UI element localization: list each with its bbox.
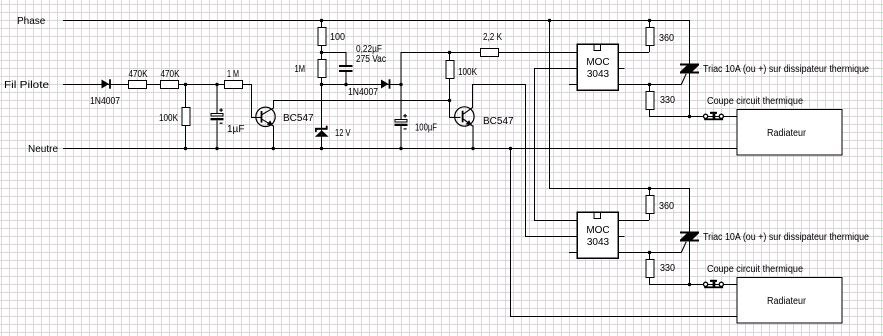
diode D2 1N4007 [381, 80, 389, 89]
wire R7 down to Q2 base [450, 53, 461, 118]
node junction triac/load line [688, 283, 691, 286]
node junction triac/load line [688, 115, 691, 118]
wire triac T1 vertical [689, 20, 691, 116]
capacitor C1 1uF [211, 108, 224, 123]
svg-text:1N4007: 1N4007 [348, 87, 378, 98]
node junction Q2 emitter/Neutre [471, 147, 474, 150]
svg-text:100K: 100K [458, 67, 477, 78]
wire U2 pin 3 stub [569, 252, 577, 254]
triac T2 [680, 232, 699, 242]
triac T1 [680, 64, 699, 74]
diode D1 1N4007 [102, 80, 110, 89]
svg-text:2,2 K: 2,2 K [483, 32, 502, 43]
node junction R5/C2/R6 [320, 51, 323, 54]
node junction C3/Neutre [399, 147, 402, 150]
node junction Neutre/return loop [509, 147, 512, 150]
wire C3 bottom [400, 126, 402, 148]
svg-text:BC547: BC547 [283, 113, 314, 124]
svg-text:330: 330 [660, 95, 675, 106]
svg-text:3043: 3043 [587, 69, 610, 80]
wire U2 pin 4 gate line [618, 252, 681, 254]
resistor R4 1M [225, 81, 243, 89]
wire U1 pin 4 gate line [618, 84, 681, 86]
resistor R6 1M [318, 60, 326, 78]
opto-triac U2 MOC 3043 [577, 212, 618, 258]
wire R3 branch down [185, 84, 187, 148]
wire C2 bottom [345, 72, 347, 84]
node junction D2 cathode / DC+ [399, 83, 402, 86]
transistor Q1 BC547 [256, 107, 275, 126]
wire Phase rail [63, 20, 689, 22]
node junction Q1 emitter/Neutre [272, 147, 275, 150]
svg-text:100: 100 [330, 32, 345, 43]
transistor Q2 BC547 [455, 107, 474, 126]
svg-text:470K: 470K [161, 69, 180, 80]
svg-text:1 M: 1 M [227, 69, 239, 80]
wire Q2 emitter down [472, 126, 474, 149]
wire R9a 360 branch [649, 188, 651, 220]
wire triac T1 gate diagonal [681, 74, 686, 85]
load Radiateur 1 box [737, 109, 842, 155]
wire load line to Radiateur 2 [689, 284, 737, 286]
wire R9 360 branch [649, 20, 651, 52]
node junction R6 bottom [320, 83, 323, 86]
resistor R5 100 [318, 28, 326, 46]
wire U1 pin 3 stub [569, 84, 577, 86]
node junction C1 top [215, 83, 218, 86]
svg-text:100µF: 100µF [415, 123, 437, 134]
resistor R1 470K [129, 81, 147, 89]
resistor R10 330 [646, 92, 654, 110]
wire rectifier line [321, 84, 401, 86]
wire U1 pin 5 stub [618, 68, 624, 70]
svg-text:Neutre: Neutre [28, 144, 58, 155]
wire Neutre rail [63, 148, 737, 150]
wire Neutre return loop to Radiateur 2 [511, 149, 738, 317]
wire U2 pin 5 stub [618, 236, 624, 238]
node junction feed/R9a 360 [648, 187, 651, 190]
wire R10 bottom corner to load line [650, 110, 690, 117]
svg-text:Triac 10A (ou +) sur dissipate: Triac 10A (ou +) sur dissipateur thermiq… [703, 232, 869, 243]
wire Q2 collector up [473, 85, 578, 237]
wire C1 branch down lower [216, 121, 218, 149]
opto-triac U1 MOC 3043 [577, 44, 618, 90]
wire U1 cathode to U2 anode [535, 69, 578, 221]
wire DC+ rail up corner [400, 52, 402, 84]
wire to C2 top [322, 53, 347, 66]
svg-text:275 Vac: 275 Vac [356, 54, 386, 65]
node junction R2/R3 [184, 83, 187, 86]
svg-text:1µF: 1µF [227, 124, 244, 135]
wire DC+ rail [401, 52, 578, 54]
svg-text:470K: 470K [129, 69, 148, 80]
svg-text:360: 360 [659, 33, 674, 44]
wire Fil Pilote rail [63, 84, 252, 86]
node junction gate line/R10a [648, 251, 651, 254]
resistor R10a 330 [646, 260, 654, 278]
node junction R7 top [448, 51, 451, 54]
node junction zener/Neutre [320, 147, 323, 150]
wire R9 bottom to U1 pin 6 [618, 52, 649, 54]
resistor R3 100K [182, 108, 190, 126]
zener D3 12V [315, 126, 329, 137]
wire Q1 emitter down [272, 126, 274, 149]
svg-text:1N4007: 1N4007 [90, 96, 120, 107]
resistor R2 470K [161, 81, 179, 89]
svg-text:Coupe circuit thermique: Coupe circuit thermique [707, 96, 803, 107]
svg-text:MOC: MOC [586, 57, 609, 68]
capacitor C3 100uF [395, 114, 408, 130]
node junction R7/collector line [448, 99, 451, 102]
svg-text:12 V: 12 V [335, 128, 351, 139]
capacitor C2 0,22uF 275Vac [339, 65, 353, 72]
node junction C1/Neutre [215, 147, 218, 150]
node junction gate line/R10 [648, 83, 651, 86]
wire Phase feed to channel 2 [550, 21, 690, 189]
wire triac T2 vertical [689, 188, 691, 284]
svg-text:1M: 1M [295, 64, 306, 75]
wire dropper vertical [321, 20, 323, 148]
svg-text:100K: 100K [159, 113, 178, 124]
svg-text:3043: 3043 [587, 237, 610, 248]
svg-text:Phase: Phase [17, 16, 46, 27]
node junction C2/diode line [344, 83, 347, 86]
svg-text:Coupe circuit thermique: Coupe circuit thermique [707, 264, 803, 275]
node junction R3/Neutre [184, 147, 187, 150]
resistor R9 360 [646, 28, 654, 46]
wire Q1 collector line to base of Q2 feed [273, 100, 449, 102]
svg-text:Fil Pilote: Fil Pilote [4, 80, 49, 91]
wire R10a top [649, 252, 651, 259]
svg-text:MOC: MOC [586, 225, 609, 236]
switch thermal cutout 1 [704, 112, 724, 120]
wire C1 branch down upper [216, 84, 218, 115]
wire R10a bottom corner to load line [650, 278, 690, 285]
node junction Phase/R5 [320, 19, 323, 22]
load Radiateur 2 box [737, 277, 842, 323]
wire R4 to Q1 base corner [244, 85, 262, 118]
wire triac T2 gate diagonal [681, 242, 686, 253]
svg-text:Radiateur: Radiateur [767, 296, 807, 307]
wire R9a bottom to U2 pin 6 [618, 220, 649, 222]
node junction Phase/feed 2 [548, 19, 551, 22]
resistor R7 100K [446, 61, 454, 79]
svg-text:BC547: BC547 [483, 116, 514, 127]
resistor R8 2,2K [481, 49, 499, 57]
resistor R9a 360 [646, 196, 654, 214]
svg-text:Radiateur: Radiateur [767, 128, 807, 139]
switch thermal cutout 2 [704, 280, 724, 288]
wire Q1 collector up [272, 100, 274, 109]
node junction Phase/R9 360 [648, 19, 651, 22]
svg-text:360: 360 [659, 201, 674, 212]
svg-text:330: 330 [660, 263, 675, 274]
wire C3 branch down [400, 84, 402, 120]
svg-text:Triac 10A (ou +) sur dissipate: Triac 10A (ou +) sur dissipateur thermiq… [703, 64, 869, 75]
wire R10 top [649, 84, 651, 91]
wire load line to Radiateur 1 [689, 116, 737, 118]
